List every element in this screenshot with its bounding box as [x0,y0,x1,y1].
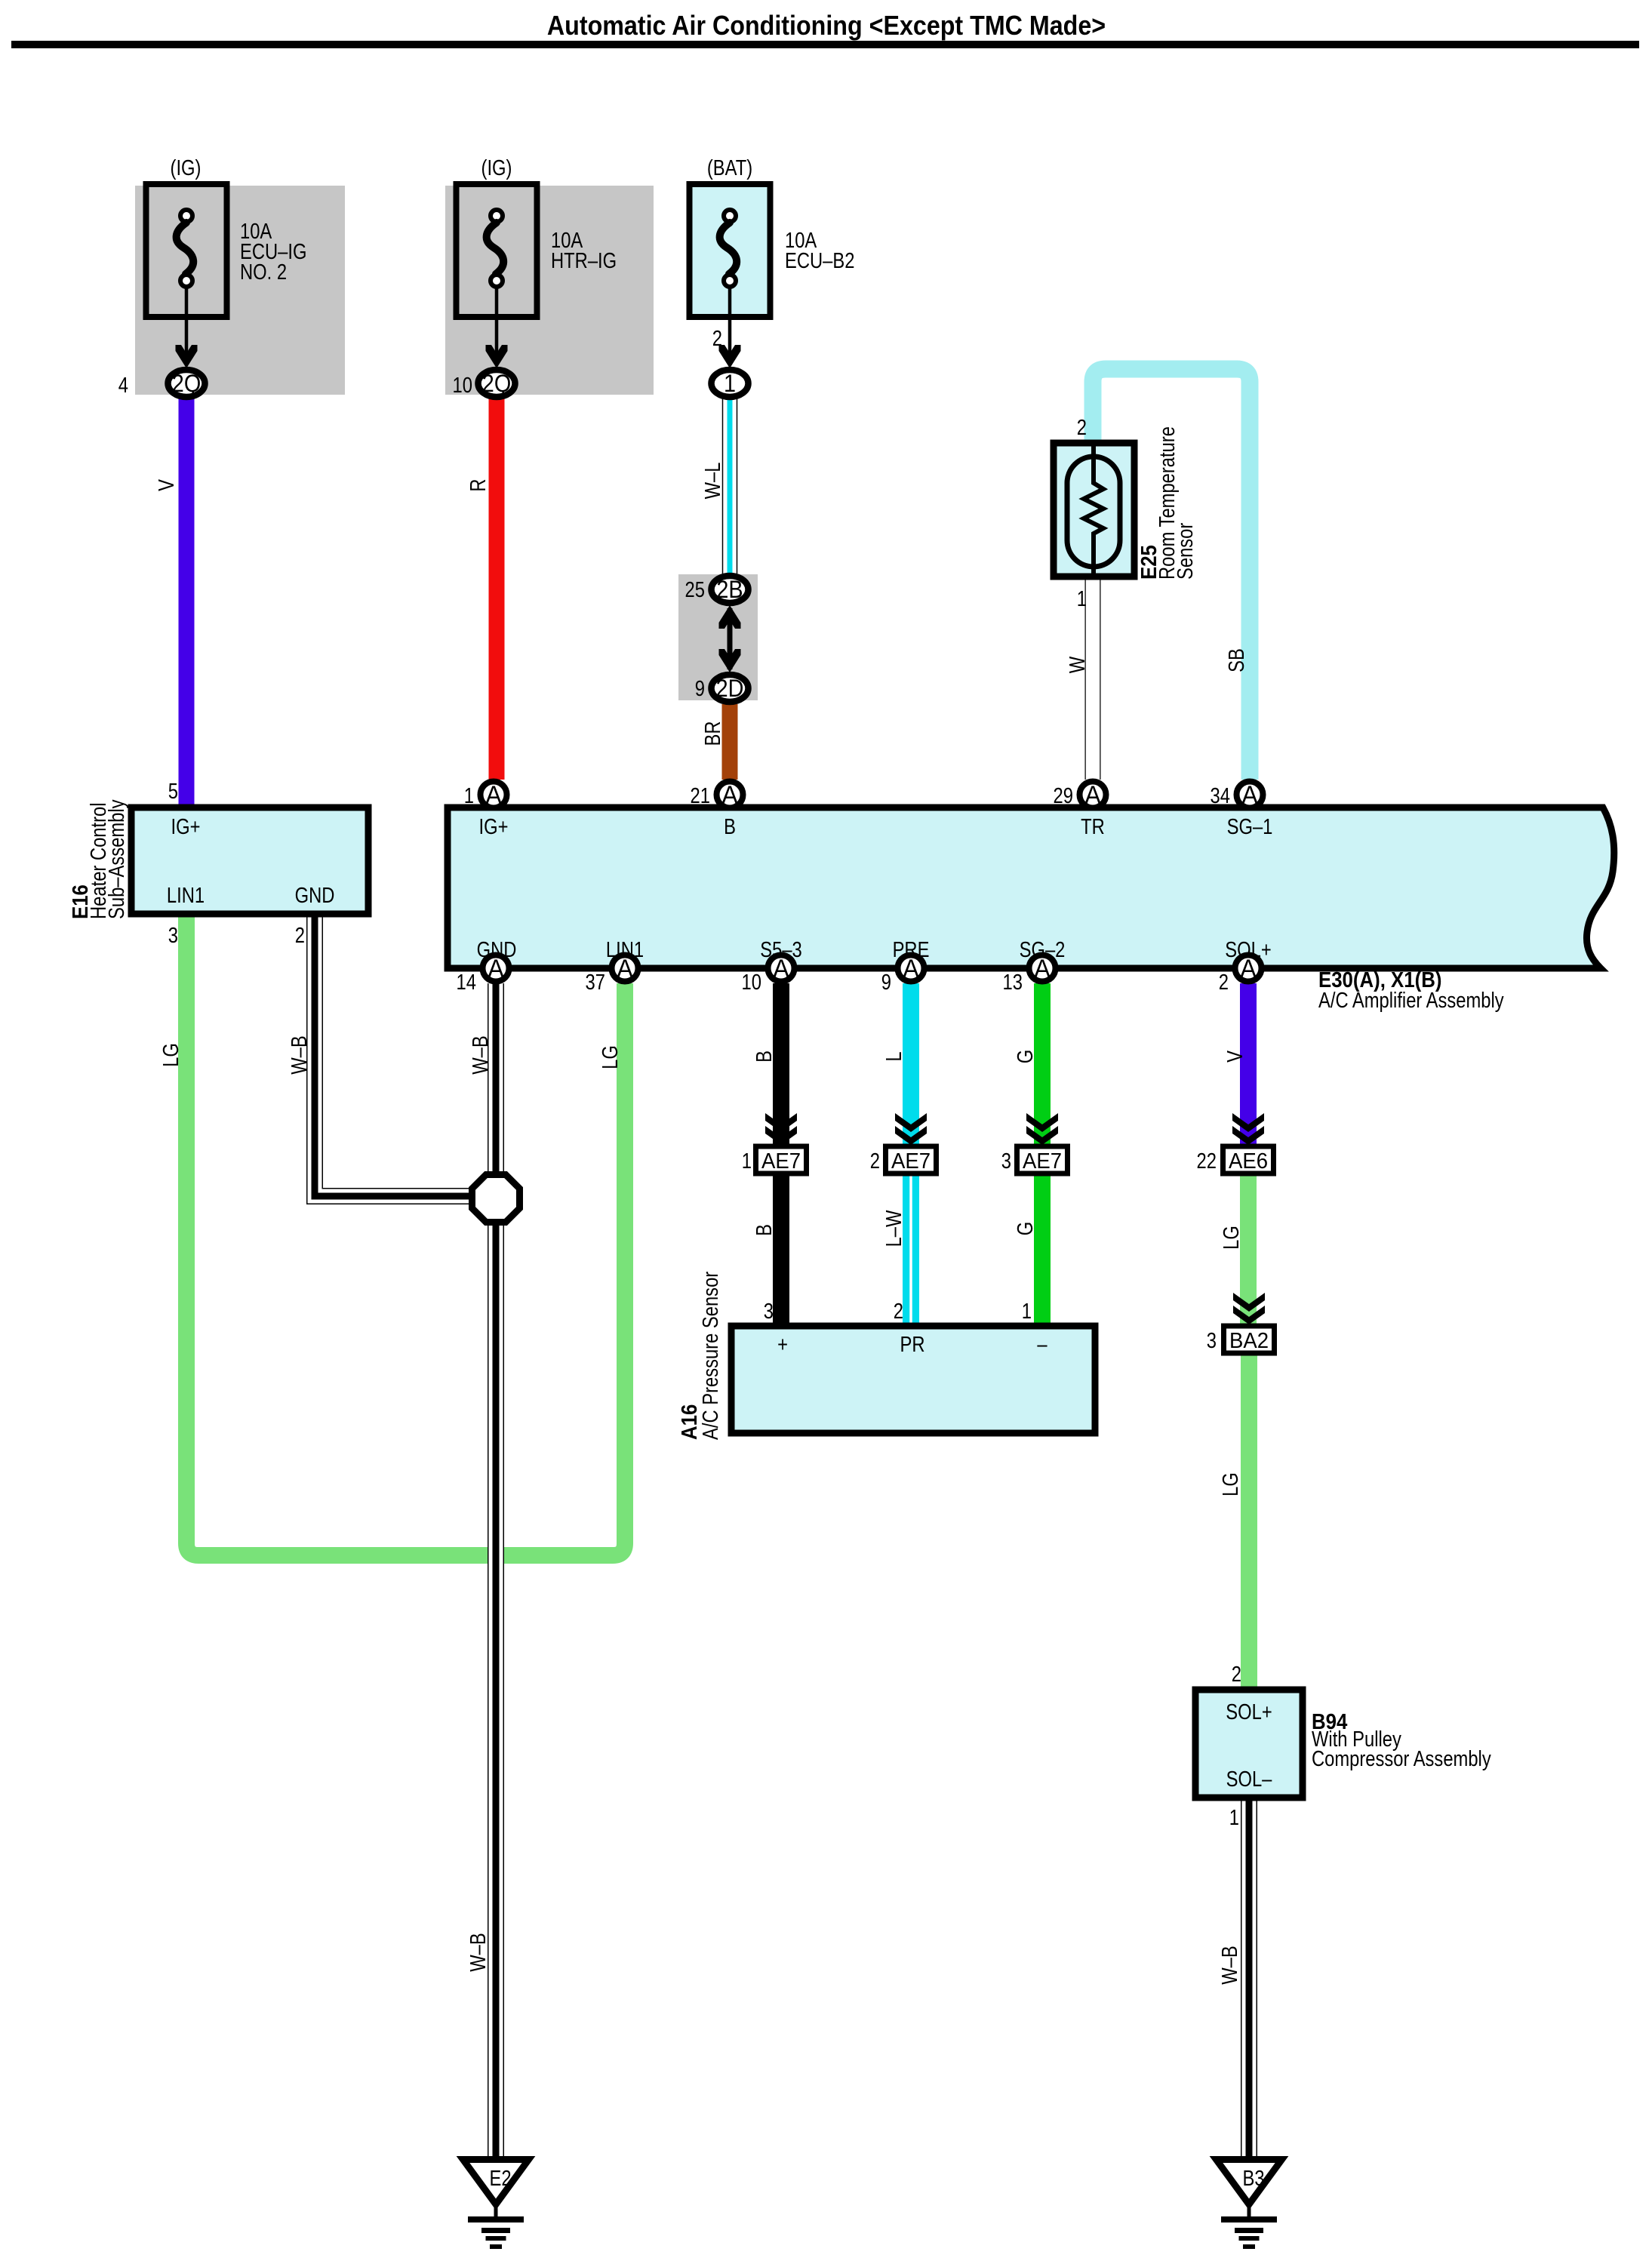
svg-text:25: 25 [685,577,705,602]
svg-text:LG: LG [158,1043,183,1067]
junction block gray box (F1) [135,186,345,395]
svg-text:2: 2 [870,1149,880,1174]
E25 Room Temperature Sensor box [1054,443,1134,577]
svg-text:G: G [1013,1050,1038,1063]
svg-text:A: A [1241,781,1258,810]
svg-text:A/C Amplifier Assembly: A/C Amplifier Assembly [1318,988,1504,1013]
connector AE7 pin2 chevrons [895,1113,927,1145]
svg-text:2Q: 2Q [172,371,201,398]
svg-text:3: 3 [1207,1328,1217,1353]
svg-text:9: 9 [881,970,891,995]
wire V from fuse F1 to E16 IG+ [179,398,195,808]
wire BR from connector 2D to amplifier B [722,704,738,780]
A16 name label [677,1272,723,1440]
wire L from amplifier PRE to connector AE7 [903,983,919,1144]
fuse ECU-B2 10A body [690,184,771,368]
svg-text:LIN1: LIN1 [167,883,205,908]
svg-text:SOL+: SOL+ [1226,1700,1272,1724]
svg-text:1: 1 [742,1149,752,1174]
wire L-W from connector AE7 to pressure sensor PR [903,1175,919,1328]
E16 Heater Control Sub-Assembly box [131,807,368,914]
fuse ECU-IG NO.2 10A body [146,184,227,368]
B94 With Pulley Compressor Assembly box [1195,1690,1303,1798]
svg-text:2D: 2D [716,675,744,703]
E16 name label [68,799,129,919]
svg-text:BA2: BA2 [1229,1327,1269,1352]
wire G from connector AE7 to pressure sensor pin1 [1034,1175,1051,1328]
wire W from E25 pin1 to amplifier TR [1085,577,1101,780]
svg-text:L: L [881,1051,906,1061]
svg-text:NO. 2: NO. 2 [240,260,287,285]
svg-text:SOL–: SOL– [1226,1767,1272,1792]
svg-text:L–W: L–W [881,1210,906,1247]
svg-text:13: 13 [1003,970,1023,995]
svg-text:Sensor: Sensor [1173,523,1198,580]
wire LG from E16 LIN1 to amplifier LIN1 [186,915,625,1555]
connector AE7 pin1 box [756,1146,807,1174]
junction double arrow 2B-2D [719,605,741,672]
wire W-L from fuse ECU-B2 to connector 2B [722,398,738,574]
svg-text:9: 9 [695,676,705,701]
svg-text:22: 22 [1197,1149,1217,1174]
connector AE7 pin3 chevrons [1026,1113,1058,1145]
junction octagon W-B [472,1175,520,1223]
junction block gray box (F2) [445,186,654,395]
wire B from connector AE7 to pressure sensor pin3 [773,1175,789,1328]
wire V from amplifier SOL+ to connector AE6 [1240,983,1257,1144]
B94 name label [1312,1709,1491,1771]
svg-text:1: 1 [1077,586,1087,611]
svg-text:3: 3 [168,923,178,948]
connector AE7 pin1 chevrons [765,1113,797,1145]
amplifier pin 1 circle A [481,781,507,810]
svg-text:W–B: W–B [468,1035,493,1075]
fuse F1 value 10A ECU-IG NO. 2 [240,219,306,285]
connector AE7 pin2 box [886,1146,937,1174]
wire G from amplifier SG-2 to connector AE7 [1034,983,1051,1144]
fuse F3 value 10A ECU-B2 [785,228,854,273]
connector BA2 chevrons [1233,1293,1265,1324]
connector 2D [712,675,749,702]
svg-text:W–B: W–B [1217,1946,1242,1985]
svg-text:LG: LG [1218,1472,1243,1497]
fuse HTR-IG 10A body [457,184,537,368]
svg-text:B3: B3 [1242,2166,1264,2191]
svg-text:5: 5 [168,779,178,804]
amplifier pin 14 circle A [483,955,509,983]
svg-text:2: 2 [1077,415,1087,440]
svg-text:AE6: AE6 [1229,1148,1268,1173]
svg-text:1: 1 [1229,1805,1239,1830]
svg-text:W: W [1065,657,1090,673]
svg-text:1: 1 [1022,1299,1032,1324]
amplifier pin 13 circle A [1029,955,1056,983]
svg-text:2: 2 [1219,970,1229,995]
svg-text:–: – [1037,1332,1047,1357]
connector AE7 pin3 box [1017,1146,1068,1174]
connector AE6 pin22 chevrons [1232,1113,1264,1145]
E25 name label [1137,426,1198,580]
svg-text:14: 14 [457,970,476,995]
svg-text:AE7: AE7 [761,1148,801,1173]
amplifier pin 21 circle A [717,781,743,810]
A16 A/C Pressure Sensor box [731,1326,1095,1433]
svg-text:Automatic Air Conditioning <Ex: Automatic Air Conditioning <Except TMC M… [547,11,1106,41]
amplifier pin 29 circle A [1080,781,1106,810]
connector 2B [712,576,749,603]
svg-text:B: B [724,814,736,839]
svg-text:10: 10 [453,373,472,398]
svg-text:A: A [1034,955,1051,983]
fuse F2 value 10A HTR-IG [551,228,617,273]
svg-text:(BAT): (BAT) [707,155,752,180]
svg-text:37: 37 [586,970,605,995]
wire SB from E25 pin2 to amplifier SG-1 [1093,369,1250,780]
connector 2Q (F2) [478,370,515,397]
connector 1 (battery feed) [712,370,749,397]
svg-text:2B: 2B [716,577,743,604]
svg-text:R: R [466,478,491,491]
wire W-B from compressor SOL- to ground B3 [1241,1797,1257,2157]
svg-text:AE7: AE7 [1023,1148,1062,1173]
svg-text:4: 4 [118,373,128,398]
connector BA2 box [1224,1326,1275,1353]
ground E2 [463,2160,529,2250]
svg-text:1: 1 [724,371,736,398]
wire W-B from amplifier GND through junction to ground E2 [488,983,504,2157]
svg-text:SG–1: SG–1 [1227,814,1273,839]
wire W-B from E16 GND to junction [315,915,472,1196]
svg-text:1: 1 [464,783,474,808]
svg-text:IG+: IG+ [479,814,509,839]
wire LG from connector BA2 to compressor SOL+ [1241,1355,1257,1690]
svg-text:V: V [154,479,179,491]
svg-text:34: 34 [1211,783,1230,808]
svg-text:BR: BR [700,721,725,746]
svg-text:2: 2 [295,923,305,948]
amplifier pin 10 circle A [768,955,795,983]
svg-text:V: V [1223,1050,1247,1063]
svg-text:AE7: AE7 [891,1148,931,1173]
svg-text:A: A [1240,955,1257,983]
wire B from amplifier S5-3 to connector AE7 [773,983,789,1144]
svg-text:A: A [617,955,633,983]
svg-text:HTR–IG: HTR–IG [551,248,617,273]
svg-text:G: G [1013,1222,1038,1235]
title underline bar [11,41,1639,48]
ground B3 [1217,2160,1282,2250]
svg-text:A/C Pressure Sensor: A/C Pressure Sensor [698,1272,723,1440]
amplifier pin 2 circle A [1235,955,1262,983]
svg-text:LG: LG [1219,1226,1244,1250]
svg-text:E2: E2 [489,2166,511,2191]
svg-text:A: A [721,781,738,810]
svg-text:A: A [488,955,504,983]
svg-text:W–B: W–B [466,1933,491,1972]
amplifier pin 37 circle A [612,955,638,983]
svg-text:LG: LG [598,1045,623,1069]
svg-text:PR: PR [900,1332,924,1357]
wire R from fuse F2 to amplifier IG+ [489,398,505,780]
svg-text:A: A [903,955,919,983]
connector block 2B/2D gray box [678,574,758,700]
svg-text:2Q: 2Q [482,371,511,398]
svg-text:2: 2 [1232,1662,1241,1687]
connector AE6 pin22 box [1223,1146,1274,1174]
amplifier pin 9 circle A [898,955,924,983]
svg-text:SB: SB [1224,648,1249,672]
E25 thermistor symbol [1067,446,1120,574]
svg-text:3: 3 [1001,1149,1011,1174]
svg-text:Sub–Assembly: Sub–Assembly [104,799,129,919]
svg-text:A: A [485,781,502,810]
svg-text:A: A [773,955,789,983]
wire LG from connector AE6 to connector BA2 [1240,1175,1257,1324]
svg-text:W–L: W–L [700,463,725,500]
amplifier pin 34 circle A [1237,781,1263,810]
svg-text:IG+: IG+ [171,814,201,839]
svg-text:29: 29 [1054,783,1073,808]
svg-text:21: 21 [691,783,710,808]
svg-text:10: 10 [742,970,761,995]
svg-text:3: 3 [764,1299,774,1324]
svg-text:A: A [1084,781,1101,810]
svg-text:GND: GND [295,883,335,908]
svg-text:Compressor Assembly: Compressor Assembly [1312,1746,1491,1771]
svg-text:(IG): (IG) [481,155,512,180]
svg-text:ECU–B2: ECU–B2 [785,248,854,273]
svg-text:B: B [752,1224,777,1236]
E30(A) X1(B) A/C Amplifier Assembly box [448,807,1614,968]
svg-text:2: 2 [894,1299,903,1324]
connector 2Q (F1) [168,370,205,397]
svg-text:2: 2 [712,326,722,351]
svg-text:(IG): (IG) [171,155,202,180]
svg-text:TR: TR [1081,814,1105,839]
svg-text:+: + [777,1332,788,1357]
svg-text:B: B [752,1050,777,1063]
